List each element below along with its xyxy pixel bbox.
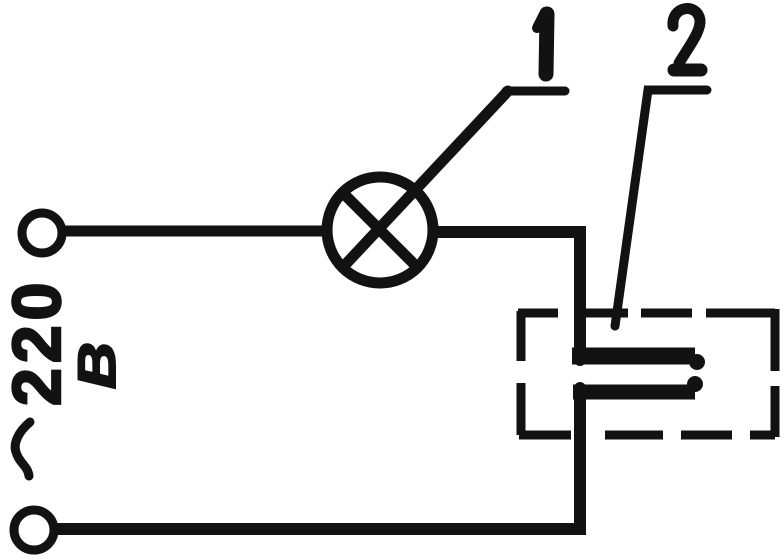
svg-text:В: В — [68, 342, 127, 389]
svg-text:220: 220 — [0, 278, 75, 406]
